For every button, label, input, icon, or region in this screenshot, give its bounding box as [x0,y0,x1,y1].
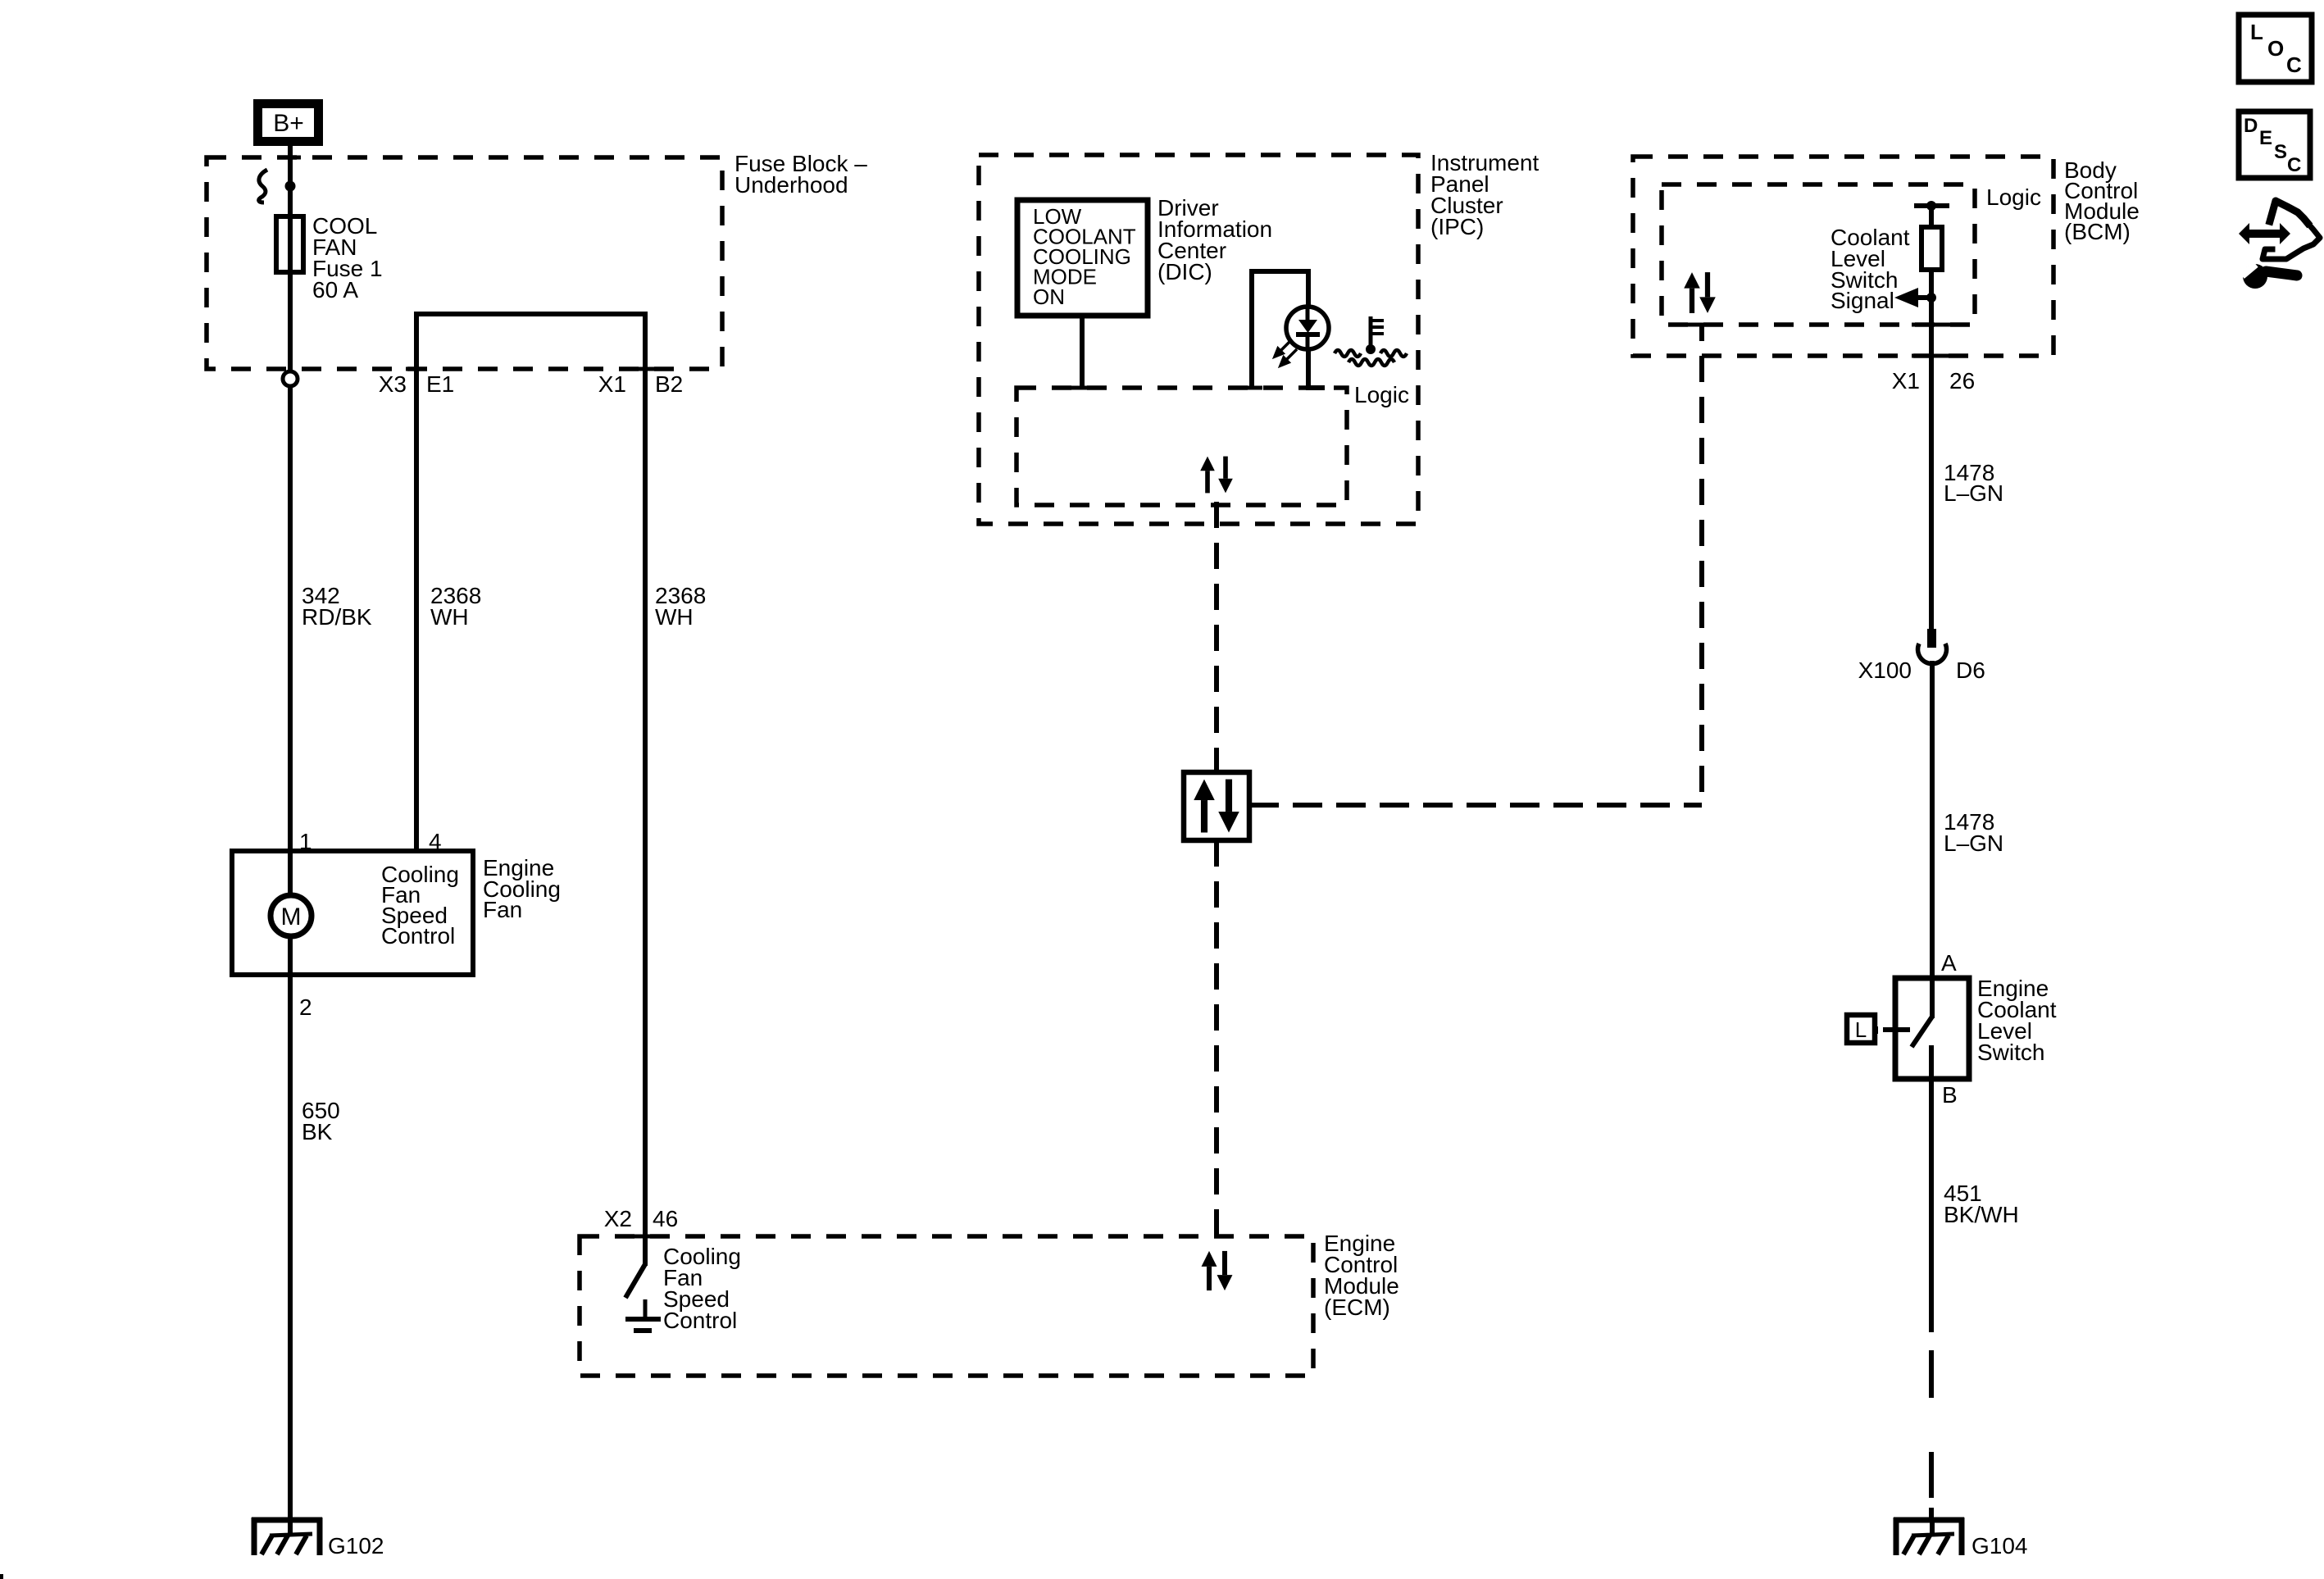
svg-text:2: 2 [299,994,312,1020]
wire 2368 WH (B2 to ECM X2) [643,369,648,1236]
motor M [271,851,312,975]
svg-text:Fan: Fan [483,897,522,922]
IPC logic dashed box [1016,388,1347,505]
svg-text:Underhood: Underhood [734,172,848,198]
svg-text:E1: E1 [426,371,454,397]
wire resistor to X1 [1929,270,1934,629]
svg-text:D: D [2244,115,2258,137]
svg-text:RD/BK: RD/BK [302,604,372,630]
connector label X3 E1 [379,371,455,397]
svg-text:L–GN: L–GN [1944,830,2003,856]
svg-text:G104: G104 [1972,1533,2028,1559]
connector service icon (glove) [2263,201,2320,259]
inline connector X100 D6 [1918,629,1947,664]
label Coolant Level Switch Signal [1831,225,1910,313]
svg-text:E: E [2259,127,2272,149]
cooling fan speed control driver switch [625,1236,661,1331]
svg-text:46: 46 [653,1206,678,1231]
power symbol B+ [253,99,323,146]
LOC reference box [2239,15,2312,82]
svg-text:Control: Control [663,1308,737,1333]
svg-text:BK/WH: BK/WH [1944,1202,2019,1227]
connector label X1 26 [1892,368,1975,394]
svg-text:L: L [1855,1017,1867,1042]
label Driver Information Center (DIC) [1157,195,1272,284]
wire 342 RD/BK [288,386,293,851]
serial data symbol box [1184,772,1249,840]
svg-text:(BCM): (BCM) [2064,219,2131,244]
svg-text:X3: X3 [379,371,407,397]
ECM dashed box [580,1236,1313,1376]
signal arrow [1894,288,1932,307]
svg-text:C: C [2286,52,2302,77]
svg-text:X1: X1 [1892,368,1920,394]
svg-text:C: C [2287,154,2301,176]
label Cooling Fan Speed Control (ECM) [663,1244,741,1333]
dashed continuation of 451 wire [1929,1350,1934,1520]
engine cooling fan box [232,851,473,975]
svg-text:ON: ON [1033,284,1065,309]
svg-text:BK: BK [302,1119,333,1144]
tick at fuse block top crossing [280,156,301,160]
svg-text:Signal: Signal [1831,288,1894,313]
wire 451 BK/WH [1929,1079,1934,1332]
DIC message box LOW COOLANT COOLING MODE ON [1017,200,1148,316]
wire fuse to terminal [288,272,293,371]
terminal open circle [283,371,298,386]
svg-text:S: S [2274,141,2287,163]
wrench icon [2240,262,2297,289]
wire label 1478 L-GN (lower) [1944,809,2003,856]
serial data dashed line data box to ECM [1214,840,1219,1236]
svg-text:(IPC): (IPC) [1430,214,1484,239]
label Engine Cooling Fan [483,855,561,922]
svg-text:Logic: Logic [1986,184,2041,210]
junction dot [1926,201,1936,211]
switch contacts and blade [1895,978,1932,1079]
tick at logic box bottom crossing [1912,323,1952,327]
label Instrument Panel Cluster (IPC) [1430,150,1539,239]
svg-text:B+: B+ [273,110,304,137]
coolant temperature symbol [1335,316,1407,366]
lightning arrows [1275,340,1297,366]
serial data arrows (ECM) [1202,1251,1233,1290]
svg-text:O: O [2267,36,2284,61]
svg-text:X1: X1 [598,371,626,397]
svg-text:Switch: Switch [1977,1040,2044,1065]
ground G102 [252,1518,322,1555]
fuse block underhood dashed box [207,157,722,369]
svg-text:X100: X100 [1858,658,1912,683]
tick under BCM arrows [1688,323,1712,327]
svg-text:Logic: Logic [1354,382,1409,407]
svg-text:WH: WH [655,604,694,630]
tick at X2 crossing [634,1235,656,1239]
splice curl symbol [259,170,267,202]
LED indicator lamp [1286,307,1329,349]
label X100 D6 [1858,658,1985,683]
svg-text:(DIC): (DIC) [1157,259,1212,284]
label Fuse Block - Underhood [734,151,867,198]
svg-text:L–GN: L–GN [1944,480,2003,506]
BCM logic dashed box [1662,184,1975,325]
serial data arrows (IPC) [1200,457,1233,494]
wire label 1478 L-GN (upper) [1944,460,2003,506]
label Engine Control Module (ECM) [1324,1231,1399,1320]
wire B+ to fuse [288,146,293,216]
pull-up resistor [1929,206,1934,227]
double-headed arrow [2239,223,2290,244]
label Body Control Module (BCM) [2064,157,2140,244]
tick at E1 crossing [406,367,427,371]
tick at BCM box bottom crossing [1912,354,1952,358]
svg-text:26: 26 [1949,368,1975,394]
wire DIC to logic [1080,316,1085,388]
serial data arrows (BCM) [1684,272,1716,313]
junction dot [285,181,296,192]
fuse COOL FAN Fuse 1 60 A [276,216,303,272]
bus bar inside fuse block [416,314,645,369]
junction dot [1926,293,1936,303]
label Engine Coolant Level Switch [1977,976,2057,1065]
body control module dashed box [1633,157,2053,356]
svg-text:A: A [1941,950,1957,976]
svg-text:B: B [1942,1082,1958,1108]
instrument panel cluster dashed box [979,155,1418,524]
tick at B2 crossing [634,367,656,371]
serial data dashed line data box to BCM [1249,803,1702,808]
LED wire to logic [1308,348,1325,388]
svg-text:(ECM): (ECM) [1324,1295,1390,1320]
wire 650 BK [288,975,293,1520]
indicator bracket wire [1252,271,1308,388]
serial data dashed line IPC to data box [1214,502,1219,772]
connector label X2 46 [604,1206,678,1231]
svg-text:M: M [281,903,302,931]
ground G104 [1894,1518,1964,1555]
level sensor L box [1847,1015,1893,1043]
pull-up supply bar [1914,203,1949,208]
connector label X1 B2 [598,371,684,397]
wire 2368 WH (E1 to fan pin 4) [414,369,419,851]
label Cooling Fan Speed Control (fan) [381,862,459,949]
svg-text:B2: B2 [655,371,683,397]
svg-text:Control: Control [381,923,455,949]
svg-text:X2: X2 [604,1206,632,1231]
svg-text:L: L [2250,20,2263,44]
svg-text:D6: D6 [1956,658,1985,683]
page corner mark [0,1574,3,1579]
svg-text:WH: WH [430,604,469,630]
engine coolant level switch box [1895,978,1969,1079]
svg-text:60 A: 60 A [312,277,358,303]
svg-text:G102: G102 [328,1533,384,1559]
DESC reference box [2239,111,2310,178]
wire X100 to switch [1930,661,1935,978]
